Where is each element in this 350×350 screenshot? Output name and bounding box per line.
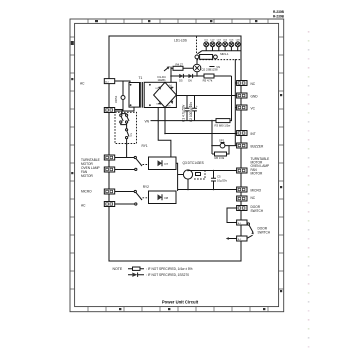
svg-text:SWITCH: SWITCH	[251, 209, 264, 213]
wire supply row y76	[171, 75, 232, 77]
svg-text:BUZZER: BUZZER	[251, 144, 264, 148]
wire bridge box top to supply row	[170, 67, 172, 83]
resistor R3	[216, 119, 230, 123]
svg-text:D8: D8	[165, 196, 169, 200]
svg-text:MR1-1: MR1-1	[220, 52, 229, 56]
thermal switch S1a	[120, 114, 123, 123]
LED group dashed enclosure	[197, 37, 242, 60]
connector pin C-4 INT	[237, 131, 247, 136]
transformer T1 primary winding	[129, 83, 140, 108]
svg-text:NC: NC	[251, 196, 256, 200]
junction dots	[157, 75, 236, 190]
bridge rectifier D1-D4 diamond	[154, 82, 177, 107]
svg-text:: IF NOT SPECIFIED, 1/4w ± 5%: : IF NOT SPECIFIED, 1/4w ± 5%	[146, 267, 193, 271]
connector pin C-3 VC	[237, 105, 247, 110]
node VH arrow	[164, 66, 170, 71]
wire Q3 collector to pin C-6	[188, 170, 237, 172]
label DOOR SWITCH at contact	[258, 227, 271, 235]
transistor Q2	[193, 59, 201, 76]
connector pin C-5 buzzer	[237, 143, 247, 148]
page id text top right	[273, 10, 285, 19]
wire stub NC	[235, 82, 236, 84]
connector pin C-7 micro	[237, 187, 247, 192]
schematic outline box	[109, 36, 241, 261]
capacitor C5	[211, 171, 216, 190]
connector pin B-1	[237, 220, 247, 225]
svg-text:NOTE: NOTE	[113, 267, 123, 271]
svg-text:AC: AC	[81, 204, 86, 208]
svg-text:C1 4.7µ/50v: C1 4.7µ/50v	[181, 104, 185, 122]
capacitor C2	[192, 96, 198, 121]
label DOOR SWITCH	[251, 205, 264, 213]
LED LD3	[216, 40, 221, 47]
wire pin A-5 to RY2 contact	[115, 191, 136, 193]
wire pin A-3 to RY1 contact	[115, 157, 136, 159]
label TURNTABLE MOTOR OVEN LAMP FAN MOTOR right	[251, 157, 270, 176]
wire VN rail	[151, 120, 217, 122]
wire AC top to transformer primary	[115, 81, 130, 85]
svg-text:R-230B: R-230B	[273, 10, 285, 14]
right feeder bus	[234, 59, 236, 146]
svg-text:Power Unit Circuit: Power Unit Circuit	[162, 300, 199, 305]
connector pin A-3 turntable motor	[104, 155, 114, 160]
LED LD4	[223, 40, 228, 47]
wire INT line	[165, 133, 237, 135]
border frame outer	[70, 19, 284, 312]
svg-text:D5: D5	[179, 79, 183, 83]
label C5 10u 25v	[217, 175, 228, 183]
svg-text:SWITCH: SWITCH	[258, 231, 271, 235]
svg-text:D6: D6	[188, 79, 192, 83]
wire micro rail	[178, 189, 237, 191]
diode D6	[188, 74, 192, 78]
svg-text:10µ/25v: 10µ/25v	[217, 179, 228, 183]
wire bridge bottom to INT line	[164, 108, 166, 134]
wire A-2 into fuse box	[115, 110, 127, 114]
bridge enclosure box with input terminals	[144, 82, 176, 107]
legend diode symbol	[128, 273, 144, 277]
scan dot column right edge	[308, 31, 310, 348]
connector pin A-2	[104, 108, 114, 113]
wire fuse box to turntable row	[126, 143, 128, 157]
border dark marks	[71, 20, 282, 310]
wire AC bottom to transformer primary	[115, 107, 134, 111]
svg-text:MOTOR: MOTOR	[81, 174, 94, 178]
svg-text:11EB1: 11EB1	[158, 78, 167, 82]
connector pin A-4 oven lamp fan motor	[104, 167, 114, 172]
svg-text:Q3 DTC143ES: Q3 DTC143ES	[183, 161, 204, 165]
transistor Q3	[178, 170, 205, 190]
svg-text:MICRO: MICRO	[251, 188, 262, 192]
legend resistor symbol	[128, 267, 144, 270]
svg-text:VC: VC	[251, 106, 256, 110]
wire bridge right to gnd rail	[176, 95, 235, 97]
relay RY2 coil with diode D8	[149, 191, 177, 204]
thermal switch S1b	[126, 114, 130, 123]
svg-text:MICRO: MICRO	[81, 190, 92, 194]
LED LD2	[210, 40, 215, 47]
connector pin A-5 micro	[104, 189, 114, 194]
connector pin C-6 relay drive	[237, 168, 247, 173]
transformer T1 core	[141, 82, 143, 108]
LED LD5	[229, 40, 234, 47]
svg-text:MOTOR: MOTOR	[251, 172, 264, 176]
svg-text:R4 27: R4 27	[176, 62, 184, 66]
svg-text:C2 1000µ/16v: C2 1000µ/16v	[189, 102, 193, 122]
wire R3 to supply drop	[230, 76, 232, 121]
svg-text:RY1: RY1	[142, 144, 148, 148]
svg-text:RY2: RY2	[143, 185, 149, 189]
reed relay MR1-1	[195, 55, 217, 60]
resistor R6	[212, 146, 229, 156]
label VN node	[209, 65, 220, 69]
border tick marks	[70, 19, 283, 311]
svg-text:: IF NOT SPECIFIED, 1SS270: : IF NOT SPECIFIED, 1SS270	[146, 273, 189, 277]
wire stub VC	[235, 107, 236, 109]
wire buzzer row	[212, 145, 237, 147]
svg-text:GND: GND	[251, 94, 259, 98]
wire door loop	[227, 208, 237, 223]
door switch contact	[247, 223, 254, 239]
svg-text:R3 680 1/2w: R3 680 1/2w	[215, 124, 232, 128]
LED bus bottom	[198, 47, 242, 54]
connector pin C-2 GND	[237, 93, 247, 98]
wire RY1 coil to RY2 coil	[176, 163, 178, 191]
svg-text:R-230B: R-230B	[273, 15, 285, 19]
fuse box dashed enclosure	[115, 112, 137, 143]
wire pin A-6 to RY2 contact	[115, 203, 136, 205]
connector pin A-1 AC live	[104, 79, 114, 84]
varistor VRS1	[121, 81, 125, 111]
svg-text:INT: INT	[251, 132, 256, 136]
border frame inner	[75, 23, 279, 306]
svg-text:VRS1: VRS1	[114, 95, 118, 103]
resistor R5	[204, 74, 214, 78]
svg-text:R5 4.7k: R5 4.7k	[203, 79, 213, 83]
relay RY1 contact	[134, 156, 148, 170]
wire rail drop x212	[211, 121, 213, 154]
wire door return with arrow	[226, 237, 237, 240]
svg-text:AC: AC	[80, 82, 85, 86]
svg-text:R6 3.3k: R6 3.3k	[215, 156, 225, 160]
diode D5	[179, 74, 183, 78]
svg-text:D7: D7	[165, 162, 169, 166]
svg-text:T1: T1	[139, 76, 143, 80]
capacitor C1	[185, 96, 191, 121]
svg-text:NC: NC	[251, 82, 256, 86]
connector pin C-9 door switch	[237, 206, 247, 211]
label D1-D4 11EB1	[158, 75, 167, 82]
thermal cutout S2	[121, 123, 129, 143]
wire VN rail to relay feed	[158, 108, 171, 158]
relay RY2 contact	[134, 190, 148, 205]
connector pin A-6 AC neutral	[104, 202, 114, 207]
label TURNTABLE MOTOR OVEN LAMP FAN MOTOR left	[81, 158, 100, 178]
relay RY1 coil with diode D7	[149, 157, 177, 170]
connector pin C-8 NC	[237, 196, 247, 201]
connector pin B-2	[237, 236, 247, 241]
wire stub GND	[235, 95, 236, 97]
svg-text:VN: VN	[145, 120, 150, 124]
LED LD6	[235, 40, 240, 47]
svg-text:VN: VN	[216, 65, 220, 69]
svg-text:SP1: SP1	[219, 139, 225, 143]
connector pin C-1 NC	[237, 81, 247, 86]
resistor R4	[171, 66, 193, 70]
buzzer SP1	[219, 139, 225, 149]
LED LD1	[204, 40, 209, 47]
svg-text:LD1-LD6: LD1-LD6	[174, 38, 187, 42]
wire pin A-4 to RY1 contact	[115, 169, 136, 171]
